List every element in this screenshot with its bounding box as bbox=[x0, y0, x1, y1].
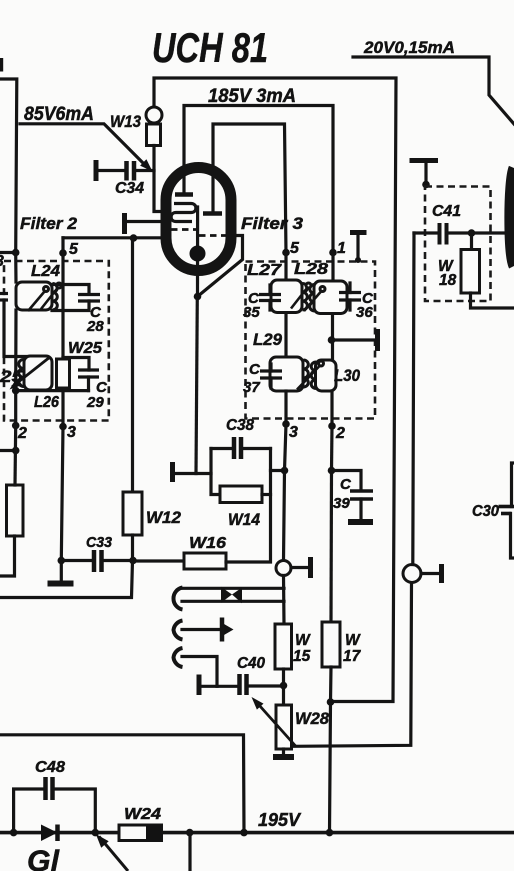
svg-text:C33: C33 bbox=[86, 534, 113, 551]
svg-text:5: 5 bbox=[69, 241, 79, 258]
svg-text:W16: W16 bbox=[189, 535, 226, 552]
svg-text:39: 39 bbox=[333, 495, 350, 512]
svg-text:3: 3 bbox=[67, 424, 76, 441]
svg-text:W14: W14 bbox=[228, 510, 260, 529]
svg-text:W12: W12 bbox=[146, 508, 182, 527]
svg-text:Filter 3: Filter 3 bbox=[241, 215, 303, 233]
svg-text:2: 2 bbox=[335, 425, 345, 442]
svg-text:1: 1 bbox=[337, 240, 346, 257]
svg-text:36: 36 bbox=[356, 304, 373, 321]
svg-text:2: 2 bbox=[17, 425, 27, 442]
svg-text:3: 3 bbox=[289, 424, 298, 441]
svg-text:185V 3mA: 185V 3mA bbox=[208, 86, 296, 107]
svg-text:W13: W13 bbox=[110, 113, 141, 131]
svg-text:W28: W28 bbox=[295, 710, 330, 728]
svg-text:29: 29 bbox=[86, 394, 104, 411]
svg-text:17: 17 bbox=[343, 648, 362, 665]
svg-text:C30: C30 bbox=[472, 503, 499, 520]
svg-text:C38: C38 bbox=[226, 417, 254, 434]
svg-text:C34: C34 bbox=[115, 180, 144, 197]
svg-text:Filter 2: Filter 2 bbox=[20, 215, 77, 233]
svg-text:W: W bbox=[345, 632, 361, 649]
svg-text:35: 35 bbox=[243, 304, 260, 321]
svg-text:15: 15 bbox=[293, 648, 311, 665]
svg-text:C: C bbox=[249, 361, 261, 378]
svg-text:195V: 195V bbox=[258, 810, 302, 830]
svg-text:C: C bbox=[340, 476, 352, 493]
svg-text:85V6mA: 85V6mA bbox=[24, 104, 94, 125]
svg-text:C41: C41 bbox=[432, 203, 461, 220]
svg-text:UCH 81: UCH 81 bbox=[152, 24, 268, 71]
svg-text:C48: C48 bbox=[35, 759, 65, 776]
svg-text:W25: W25 bbox=[68, 340, 103, 357]
svg-text:37: 37 bbox=[243, 379, 260, 396]
svg-text:3: 3 bbox=[0, 253, 4, 270]
svg-text:5: 5 bbox=[290, 240, 300, 257]
svg-text:L26: L26 bbox=[34, 394, 59, 411]
svg-text:L29: L29 bbox=[253, 331, 283, 349]
svg-text:18: 18 bbox=[439, 272, 457, 289]
svg-text:W24: W24 bbox=[124, 806, 161, 823]
svg-text:W: W bbox=[295, 632, 311, 649]
svg-text:L30: L30 bbox=[334, 367, 361, 385]
svg-text:C40: C40 bbox=[237, 655, 265, 672]
svg-text:L28: L28 bbox=[294, 261, 328, 278]
svg-text:20V0,15mA: 20V0,15mA bbox=[363, 38, 455, 57]
svg-text:Gl: Gl bbox=[27, 845, 60, 871]
svg-text:L27: L27 bbox=[247, 262, 282, 279]
svg-text:28: 28 bbox=[86, 318, 104, 335]
svg-text:L24: L24 bbox=[31, 263, 60, 280]
